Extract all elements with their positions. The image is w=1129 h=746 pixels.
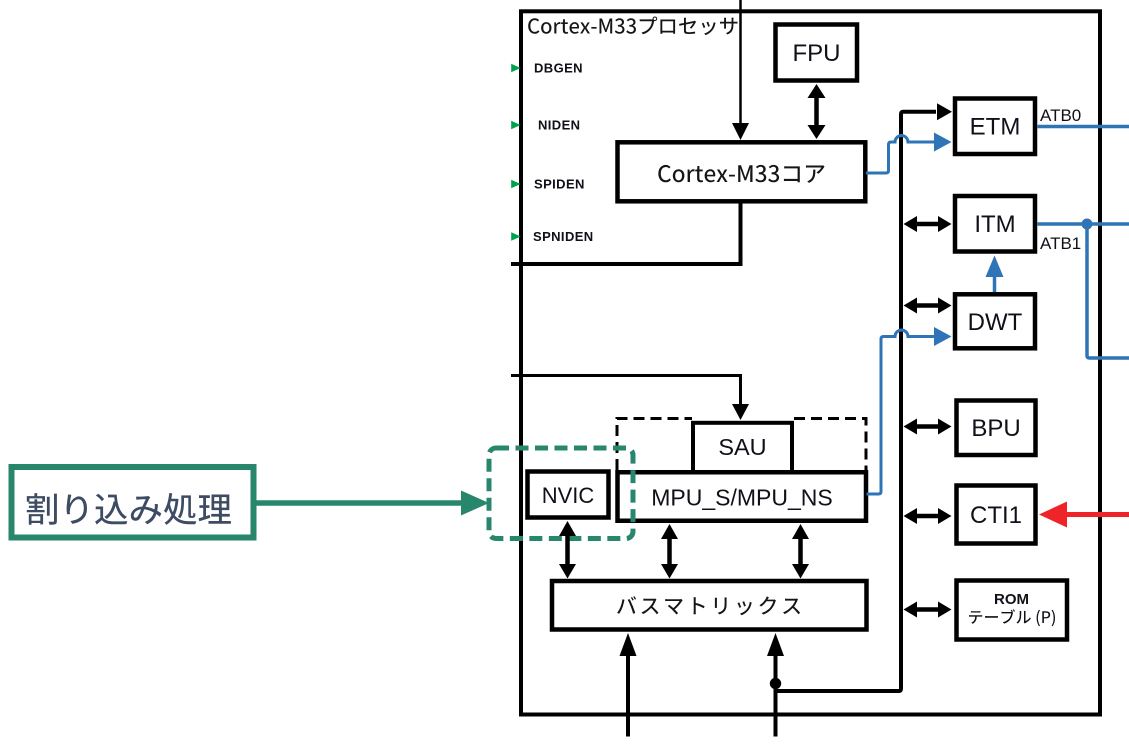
svg-text:ITM: ITM xyxy=(974,211,1015,238)
svg-text:SAU: SAU xyxy=(718,434,766,460)
wire: MPU <-> bus matrix double arrow (left) xyxy=(667,536,672,566)
wire: core bottom to left border xyxy=(511,204,741,265)
input port SPIDEN: green arrowhead xyxy=(511,180,520,188)
label テーブル (P) xyxy=(969,609,1055,626)
box DWT xyxy=(955,294,1035,348)
svg-text:DWT: DWT xyxy=(968,309,1023,336)
input port NIDEN: green arrowhead xyxy=(511,121,520,129)
box Cortex-M33 core xyxy=(618,142,866,201)
svg-text:ETM: ETM xyxy=(970,114,1021,141)
wire: top input into Cortex-M33 core (vertical, crosses outer border) xyxy=(739,0,742,125)
svg-text:CTI1: CTI1 xyxy=(970,502,1022,529)
wire: blue trace core -> ETM xyxy=(866,136,935,173)
wire: bottom input 2 into bus matrix (crosses bottom border) xyxy=(774,654,778,737)
box ETM xyxy=(955,99,1035,155)
svg-text:SPNIDEN: SPNIDEN xyxy=(533,229,594,244)
dashed group box around SAU/MPU (security attribution unit group) xyxy=(617,419,692,471)
label Cortex-M33コア xyxy=(658,165,824,183)
wire: spine <-> CTI1 double arrow xyxy=(916,514,939,519)
wire: left border to SAU (arrow down into SAU top) xyxy=(511,376,741,406)
box ROM table xyxy=(957,581,1068,640)
svg-text:BPU: BPU xyxy=(971,415,1020,442)
wire: blue arrow DWT -> ITM xyxy=(993,276,997,292)
callout box 割り込み処理 (interrupt handling) xyxy=(12,467,254,538)
wire: red external trigger arrow into CTI1 xyxy=(1066,512,1129,517)
label 割り込み処理 xyxy=(27,493,231,525)
green dashed highlight box around NVIC xyxy=(489,448,633,539)
wire: MPU <-> bus matrix double arrow (right) xyxy=(798,536,803,566)
input port SPNIDEN: green arrowhead xyxy=(511,232,520,240)
outer box: Cortex-M33 processor boundary xyxy=(521,11,1100,714)
junction node on ATB1 xyxy=(1082,219,1093,230)
svg-text:SPIDEN: SPIDEN xyxy=(534,177,585,192)
wire: blue ATB1 output from ITM to right edge with branch xyxy=(1038,222,1129,226)
svg-text:ROM: ROM xyxy=(994,591,1029,608)
box NVIC xyxy=(528,472,609,518)
wire: FPU <-> core double arrow xyxy=(814,96,819,127)
wire: spine <-> ROM table double arrow xyxy=(916,607,939,612)
box MPU_S/MPU_NS xyxy=(618,472,867,521)
wire: blue ATB0 output from ETM to right edge xyxy=(1038,125,1129,129)
svg-text:DBGEN: DBGEN xyxy=(534,61,583,76)
box bus matrix バスマトリックス xyxy=(552,581,867,630)
box FPU xyxy=(776,25,858,81)
svg-text:MPU_S/MPU_NS: MPU_S/MPU_NS xyxy=(651,485,832,511)
input port DBGEN: green arrowhead xyxy=(511,64,520,72)
title: Cortex-M33プロセッサ xyxy=(528,17,737,36)
wire: NVIC <-> bus matrix double arrow xyxy=(565,534,570,566)
wire: bottom input 1 into bus matrix (crosses bottom border) xyxy=(626,654,630,737)
green arrow from callout to NVIC group xyxy=(256,500,463,506)
svg-text:FPU: FPU xyxy=(793,40,841,67)
box CTI1 xyxy=(957,486,1036,544)
svg-text:ATB1: ATB1 xyxy=(1040,234,1081,253)
box BPU xyxy=(957,401,1036,456)
wire: spine <-> BPU double arrow xyxy=(916,424,939,429)
svg-text:NVIC: NVIC xyxy=(542,483,595,508)
wire: debug APB spine (junction dot up to ETM arrow) xyxy=(776,112,937,691)
wire: spine <-> ITM double arrow xyxy=(916,222,939,227)
wire: blue trace MPU -> DWT xyxy=(867,330,936,494)
wire: spine <-> DWT double arrow xyxy=(916,303,939,308)
label バスマトリックス xyxy=(617,596,800,615)
svg-text:NIDEN: NIDEN xyxy=(538,118,580,133)
box SAU xyxy=(693,423,792,473)
svg-text:ATB0: ATB0 xyxy=(1040,106,1081,125)
box ITM xyxy=(955,196,1035,252)
junction dot on bottom input 2 xyxy=(770,678,781,689)
